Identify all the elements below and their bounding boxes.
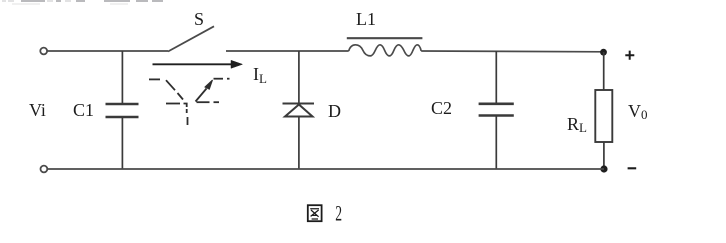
wire C1 branch top <box>121 51 123 104</box>
current arrow IL <box>153 60 243 68</box>
wire C2 branch bottom <box>495 116 497 170</box>
svg-text:C1: C1 <box>73 100 94 120</box>
svg-text:C2: C2 <box>431 98 452 118</box>
svg-text:S: S <box>194 9 204 29</box>
wire top rail (switch to inductor L1) <box>226 50 349 52</box>
node output top (junction dot) <box>600 49 607 56</box>
input terminal (bottom) <box>41 166 48 173</box>
wire D branch top <box>298 51 300 104</box>
wire bottom rail <box>47 168 604 170</box>
node output bottom (junction dot) <box>600 165 607 172</box>
wire C2 branch top <box>495 51 497 103</box>
inductor L1 <box>347 38 423 56</box>
diode D <box>283 104 315 117</box>
capacitor C2 <box>479 104 514 116</box>
label minus <box>628 167 637 169</box>
svg-text:D: D <box>328 101 341 121</box>
wire top rail (inductor to output node) <box>421 50 603 53</box>
switch S <box>168 26 214 51</box>
svg-text:Vi: Vi <box>29 100 46 120</box>
input terminal (top) <box>40 48 47 55</box>
wire top rail (input terminal to switch) <box>47 50 168 52</box>
svg-text:L1: L1 <box>356 9 376 29</box>
svg-text:2: 2 <box>335 201 342 225</box>
capacitor C1 <box>106 104 139 117</box>
wire RL branch top <box>603 52 605 90</box>
wire D branch bottom <box>298 117 300 170</box>
wire C1 branch bottom <box>121 117 123 169</box>
wire RL branch bottom <box>603 142 605 169</box>
resistor RL <box>595 90 612 142</box>
cropped text fragment (top edge) <box>2 1 163 4</box>
transistor Q (dashed symbol) <box>149 79 230 125</box>
caption figure 2 glyph (drawn CJK tu) <box>308 205 322 221</box>
label plus <box>625 51 634 60</box>
